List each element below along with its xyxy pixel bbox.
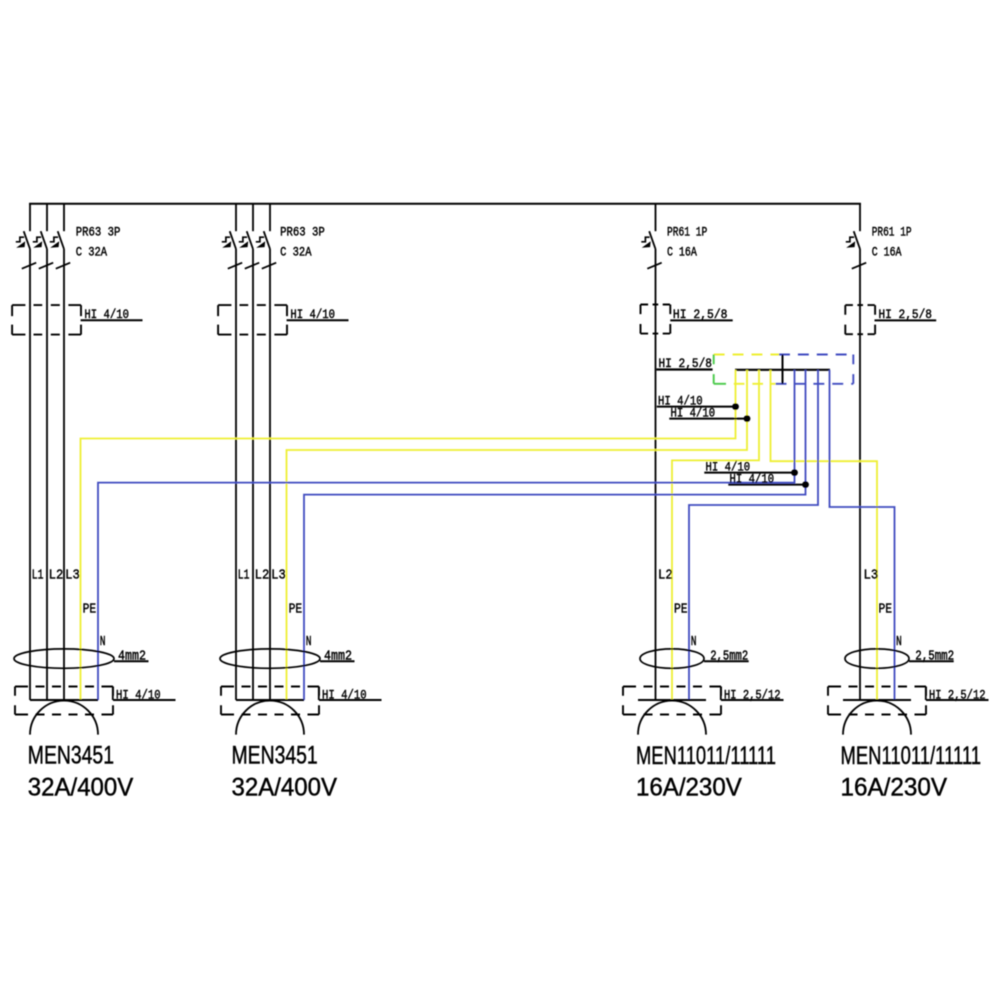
label line HI 4/10 branch2 (287, 319, 349, 321)
socket X4 cable label line (909, 660, 954, 662)
breaker Q1 pole 2 breaker tick (39, 263, 53, 269)
breaker Q4 blade (854, 231, 860, 249)
svg-text:PR61 1P: PR61 1P (872, 225, 912, 240)
junction dot at 794.5,472.6 (791, 469, 798, 476)
svg-text:HI 2,5/12: HI 2,5/12 (929, 687, 986, 702)
svg-text:HI 2,5/8: HI 2,5/8 (879, 307, 933, 322)
svg-text:N: N (691, 635, 697, 650)
socket X2 label bracket (318, 687, 320, 701)
PE wire socket X4 (771, 370, 878, 700)
breaker Q1 pole 3 supply stub (63, 203, 65, 231)
breaker Q1 pole 1 release arrow (16, 241, 25, 247)
socket X3 terminal bar (638, 699, 706, 701)
svg-text:PR63 3P: PR63 3P (280, 225, 325, 240)
socket X1 dashed box (15, 687, 113, 715)
socket X1 label line (113, 699, 176, 701)
svg-text:L3: L3 (864, 569, 879, 584)
svg-text:L3: L3 (65, 569, 80, 584)
breaker Q4 release arrow (846, 241, 855, 247)
breaker Q4 supply stub (859, 203, 861, 231)
svg-text:MEN3451: MEN3451 (232, 742, 318, 770)
svg-text:HI 4/10: HI 4/10 (290, 307, 335, 322)
breaker Q1 pole 1 blade (24, 231, 30, 249)
cable box HI 2,5/8 branch4 (845, 305, 875, 334)
PE wire socket X3 (672, 370, 759, 700)
PE wire socket X2 (287, 370, 748, 700)
N wire socket X2 (304, 370, 806, 700)
svg-text:PR63 3P: PR63 3P (76, 225, 121, 240)
breaker Q1 pole 3 breaker tick (56, 263, 70, 269)
svg-text:PE: PE (83, 602, 97, 617)
breaker Q2 pole 3 supply stub (269, 203, 271, 231)
socket X3 ellipse (cable marker) (640, 649, 704, 668)
L2 wire branch3 (655, 249, 657, 700)
L3 wire branch2 (269, 249, 271, 700)
breaker Q2 pole 1 supply stub (235, 203, 237, 231)
socket X1 terminal bar (30, 699, 98, 701)
svg-text:MEN11011/11111: MEN11011/11111 (841, 742, 982, 770)
svg-text:PE: PE (674, 602, 688, 617)
junction PE/N split post (782, 355, 784, 384)
breaker Q3 blade (649, 231, 655, 249)
svg-text:PE: PE (879, 602, 893, 617)
socket X2 terminal bar (236, 699, 304, 701)
svg-text:16A/230V: 16A/230V (841, 773, 948, 801)
label line HI 4/10 at y=484.6 (728, 484, 805, 486)
supply bus (29, 203, 861, 205)
svg-text:L1: L1 (32, 569, 44, 584)
breaker Q1 pole 3 blade (58, 231, 64, 249)
svg-text:MEN3451: MEN3451 (28, 742, 114, 770)
breaker Q2 pole 2 release arrow (239, 241, 248, 247)
breaker Q1 pole 2 blade (41, 231, 47, 249)
svg-text:MEN11011/11111: MEN11011/11111 (636, 742, 776, 770)
breaker Q3 thermal release (641, 237, 649, 242)
breaker Q2 pole 3 blade (264, 231, 270, 249)
N wire socket X3 (689, 370, 818, 700)
breaker Q2 pole 3 release arrow (256, 241, 265, 247)
junction dashed box top edge N part (779, 354, 853, 356)
svg-text:C 32A: C 32A (76, 245, 108, 260)
svg-text:HI 2,5/12: HI 2,5/12 (724, 687, 781, 702)
junction dashed box bottom edge N part (776, 383, 854, 385)
breaker Q2 pole 3 breaker tick (262, 263, 276, 269)
socket X3 dashed box (623, 687, 721, 715)
svg-text:C 16A: C 16A (667, 245, 697, 260)
breaker Q1 pole 2 thermal release (33, 237, 41, 242)
breaker Q1 pole 1 thermal release (16, 237, 24, 242)
breaker Q2 pole 3 thermal release (256, 237, 264, 242)
svg-text:HI 4/10: HI 4/10 (116, 687, 161, 702)
svg-text:L2: L2 (658, 569, 673, 584)
socket X1 ellipse (cable marker) (14, 649, 114, 668)
junction dot at 747,418.6 (744, 415, 751, 422)
breaker Q4 thermal release (846, 237, 854, 242)
L1 wire branch1 (29, 249, 31, 700)
svg-text:L2: L2 (49, 569, 64, 584)
breaker Q1 pole 2 supply stub (46, 203, 48, 231)
junction dashed box right edge (N blue) (852, 355, 854, 384)
socket X4 label bracket (925, 687, 927, 701)
L3 wire branch4 (859, 249, 861, 700)
svg-text:4mm2: 4mm2 (118, 650, 146, 665)
breaker Q1 pole 3 thermal release (50, 237, 58, 242)
svg-text:HI 4/10: HI 4/10 (322, 687, 367, 702)
PE wire socket X1 (81, 370, 736, 700)
svg-text:PR61 1P: PR61 1P (667, 225, 707, 240)
svg-text:HI 4/10: HI 4/10 (730, 471, 775, 486)
svg-text:C 32A: C 32A (280, 245, 312, 260)
breaker Q4 breaker tick (852, 263, 866, 269)
L2 wire branch2 (252, 249, 254, 700)
svg-text:HI 2,5/8: HI 2,5/8 (659, 356, 713, 371)
breaker Q2 pole 1 blade (230, 231, 236, 249)
svg-text:N: N (100, 635, 106, 650)
svg-text:4mm2: 4mm2 (324, 650, 352, 665)
socket X2 cable label line (320, 660, 355, 662)
junction dashed box bottom edge PE part (734, 383, 776, 385)
svg-text:N: N (896, 635, 902, 650)
breaker Q2 pole 2 thermal release (239, 237, 247, 242)
svg-text:2,5mm2: 2,5mm2 (710, 650, 748, 665)
label line HI 2,5/8 branch3 (670, 319, 732, 321)
svg-text:C 16A: C 16A (872, 245, 902, 260)
svg-text:2,5mm2: 2,5mm2 (915, 650, 954, 665)
breaker Q2 pole 2 breaker tick (245, 263, 259, 269)
svg-text:PE: PE (289, 602, 303, 617)
svg-text:L1: L1 (238, 569, 250, 584)
breaker Q1 pole 1 breaker tick (22, 263, 36, 269)
breaker Q2 pole 2 blade (247, 231, 253, 249)
breaker Q3 breaker tick (647, 263, 661, 269)
breaker Q3 supply stub (655, 203, 657, 231)
socket X3 label bracket (720, 687, 722, 701)
L2 wire branch1 (46, 249, 48, 700)
socket X2 dome (236, 701, 304, 735)
socket X1 dome (30, 701, 98, 735)
svg-text:HI 4/10: HI 4/10 (84, 307, 129, 322)
junction bus bar (735, 369, 830, 371)
socket X3 label line (721, 699, 784, 701)
cable box HI 4/10 branch2 (218, 305, 287, 335)
label line HI 4/10 at y=406.6 (657, 406, 736, 408)
L3 wire branch1 (63, 249, 65, 700)
breaker Q1 pole 2 release arrow (33, 241, 42, 247)
breaker Q3 release arrow (642, 241, 651, 247)
socket X3 cable label line (704, 660, 749, 662)
svg-text:32A/400V: 32A/400V (232, 773, 338, 801)
socket X2 label line (319, 699, 382, 701)
svg-text:32A/400V: 32A/400V (28, 773, 134, 801)
junction dashed box bottom edge PE corner (714, 383, 726, 385)
breaker Q2 pole 1 release arrow (222, 241, 231, 247)
socket X4 label line (926, 699, 989, 701)
socket X4 terminal bar (843, 699, 911, 701)
socket X1 label bracket (112, 687, 114, 701)
socket X4 dome (843, 701, 911, 735)
breaker Q1 pole 1 supply stub (29, 203, 31, 231)
socket X2 ellipse (cable marker) (220, 649, 320, 668)
cable box HI 2,5/8 branch3 (641, 305, 671, 334)
breaker Q2 pole 1 breaker tick (228, 263, 242, 269)
cable box HI 4/10 branch1 (12, 305, 81, 335)
socket X2 dashed box (221, 687, 319, 715)
svg-text:HI 2,5/8: HI 2,5/8 (673, 307, 728, 322)
svg-text:16A/230V: 16A/230V (636, 773, 742, 801)
N wire socket X4 (830, 370, 895, 700)
junction dashed box top edge PE part (714, 354, 779, 356)
socket X3 dome (638, 701, 706, 735)
junction dot at 735.5,406.6 (732, 403, 739, 410)
socket X1 cable label line (114, 660, 149, 662)
junction dashed box left edge (PE green) (713, 355, 715, 384)
N wire socket X1 (98, 370, 795, 700)
label line HI 2,5/8 branch4 (875, 319, 937, 321)
breaker Q1 pole 3 release arrow (50, 241, 59, 247)
label line HI 4/10 at y=472.6 (704, 472, 794, 474)
socket X4 dashed box (828, 687, 926, 715)
svg-text:L3: L3 (271, 569, 286, 584)
svg-text:L2: L2 (255, 569, 270, 584)
svg-text:N: N (306, 635, 312, 650)
label line HI 2,5/8 junction (657, 368, 713, 370)
label line HI 4/10 branch1 (81, 319, 143, 321)
junction dot at 805.5,484.6 (802, 481, 809, 488)
socket X4 ellipse (cable marker) (845, 649, 909, 668)
breaker Q2 pole 2 supply stub (252, 203, 254, 231)
label line HI 4/10 at y=418.6 (669, 418, 747, 420)
svg-text:HI 4/10: HI 4/10 (671, 405, 716, 420)
L1 wire branch2 (235, 249, 237, 700)
breaker Q2 pole 1 thermal release (222, 237, 230, 242)
